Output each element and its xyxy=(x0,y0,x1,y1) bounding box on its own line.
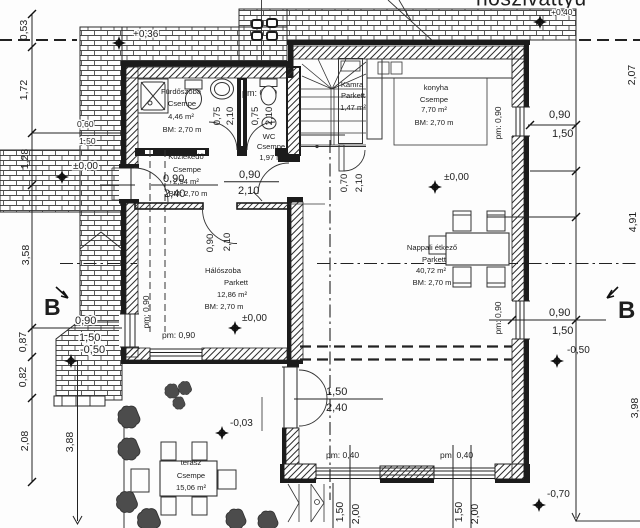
stair winder fan xyxy=(300,59,366,89)
french door leaf arcs xyxy=(299,370,327,426)
rotated door dims xyxy=(205,107,365,253)
right edge labels rotated xyxy=(626,65,640,419)
bathroom door arc xyxy=(209,122,237,150)
svg-text:±0,00: ±0,00 xyxy=(444,172,469,183)
shower tray xyxy=(138,79,168,113)
dining chairs xyxy=(429,211,505,287)
room label terrace xyxy=(176,458,206,492)
svg-text:1,28: 1,28 xyxy=(19,149,31,170)
stair bottom edge xyxy=(300,135,366,147)
living west wall below door xyxy=(282,428,286,464)
step connector wall xyxy=(288,40,294,78)
living room east window xyxy=(511,301,531,339)
svg-text:0,90: 0,90 xyxy=(549,109,570,121)
kitchen window dim 0,90/1,50 xyxy=(528,124,576,126)
svg-text:Csempe: Csempe xyxy=(420,95,448,104)
west window of bedroom xyxy=(119,314,139,347)
svg-text:Parkett: Parkett xyxy=(422,255,447,264)
terrace french door frame xyxy=(282,367,299,428)
terrace edge witness line xyxy=(261,397,263,431)
hall south wall segment 2 xyxy=(237,203,289,209)
svg-text:terasz: terasz xyxy=(181,458,202,467)
top wall hatch (bath/wc section) xyxy=(122,67,287,78)
kitchen appliances xyxy=(378,62,389,74)
left chain labels rotated xyxy=(17,20,76,453)
svg-text:Parkett: Parkett xyxy=(224,278,249,287)
brick cladding above bathroom xyxy=(122,27,287,61)
wc east wall xyxy=(287,67,300,155)
svg-text:pm: 0,90: pm: 0,90 xyxy=(162,330,195,340)
svg-text:2,10: 2,10 xyxy=(225,107,236,126)
wc partition bottom bar xyxy=(237,148,247,156)
svg-text:B: B xyxy=(618,297,635,324)
svg-text:Hálószoba: Hálószoba xyxy=(205,266,242,275)
bedroom east wall hatch xyxy=(291,202,303,360)
svg-text:4,46 m²: 4,46 m² xyxy=(168,112,194,121)
chain ticks xyxy=(28,10,36,18)
wc door arc xyxy=(247,122,275,150)
section arrow right xyxy=(607,287,618,298)
svg-text:pm: 0,40: pm: 0,40 xyxy=(326,450,359,460)
room label hall xyxy=(168,152,207,198)
terrace chairs xyxy=(131,442,236,515)
svg-text:pm: 0,90: pm: 0,90 xyxy=(493,301,503,334)
hall dashed canopy lines xyxy=(150,150,165,332)
svg-text:2,00: 2,00 xyxy=(350,504,362,525)
left small dims xyxy=(77,119,96,146)
chimney flues xyxy=(252,19,277,40)
svg-text:1,50: 1,50 xyxy=(79,136,96,146)
svg-text:0,75: 0,75 xyxy=(250,107,261,126)
room label living xyxy=(407,243,457,287)
bottom wall window sill lines xyxy=(316,468,495,479)
right dim line xyxy=(572,40,580,521)
left wall hatch xyxy=(126,67,138,357)
hall east door arc xyxy=(258,163,289,194)
svg-text:1,72: 1,72 xyxy=(18,80,30,101)
bathroom toilet xyxy=(185,80,202,109)
svg-text:1,50: 1,50 xyxy=(453,502,465,523)
kitchen floor outline xyxy=(394,78,487,145)
heat-pump leader lines xyxy=(388,0,434,42)
hall south wall segment 1 xyxy=(135,203,203,209)
dashed boundary top left xyxy=(0,39,77,41)
svg-text:0,60: 0,60 xyxy=(77,119,94,129)
terrace door dim 1,50/2,40 xyxy=(294,398,383,400)
kitchen left counter xyxy=(367,59,382,139)
svg-text:±0,00: ±0,00 xyxy=(73,161,98,172)
svg-text:3,98: 3,98 xyxy=(629,398,640,419)
brick band left horizontal xyxy=(0,150,122,212)
stair handrail xyxy=(331,89,334,145)
svg-text:4,91: 4,91 xyxy=(627,212,639,233)
svg-text:Kamra: Kamra xyxy=(341,80,364,89)
kitchen top counter xyxy=(367,59,512,78)
pm labels xyxy=(162,330,473,460)
bottom right boundary line xyxy=(576,520,640,522)
bath-wc partition wall xyxy=(237,78,247,148)
wall connector xyxy=(287,364,299,367)
svg-text:-0,03: -0,03 xyxy=(230,418,253,429)
brick column below with gable xyxy=(80,212,122,322)
svg-text:2,00: 2,00 xyxy=(469,504,481,525)
secondary left dim line 3,88 xyxy=(73,360,82,524)
svg-text:BM: 2,70 m: BM: 2,70 m xyxy=(415,118,454,127)
svg-text:-0,50: -0,50 xyxy=(80,344,105,356)
trees along terrace edge xyxy=(118,406,140,428)
bedroom door swing arc xyxy=(203,209,238,244)
svg-text:1,50: 1,50 xyxy=(334,502,346,523)
svg-text:2,08: 2,08 xyxy=(19,431,31,452)
entry door swing arc xyxy=(134,168,168,202)
right wall dark edge xyxy=(524,40,529,482)
svg-text:12,86 m²: 12,86 m² xyxy=(217,290,247,299)
svg-text:BM: 2,70 m: BM: 2,70 m xyxy=(413,278,452,287)
svg-text:1,50: 1,50 xyxy=(79,332,100,344)
svg-text:3,58: 3,58 xyxy=(20,245,32,266)
svg-text:1,47 m²: 1,47 m² xyxy=(340,103,366,112)
left dimension chain xyxy=(32,14,135,482)
svg-text:pm: 0,90: pm: 0,90 xyxy=(493,106,503,139)
bathroom sink xyxy=(211,79,234,99)
svg-text:1,50: 1,50 xyxy=(552,325,573,337)
elevation markers xyxy=(112,36,126,50)
bedroom south window xyxy=(150,349,202,360)
svg-text:0,53: 0,53 xyxy=(18,20,30,41)
svg-text:Csempe: Csempe xyxy=(177,471,205,480)
entry steps xyxy=(54,396,105,406)
svg-text:pm: 0,90: pm: 0,90 xyxy=(141,295,151,328)
svg-text:Közlekedő: Közlekedő xyxy=(168,152,203,161)
pantry closet under stairs xyxy=(339,59,363,144)
potted plants on terrace xyxy=(165,384,179,398)
bushes at bottom xyxy=(226,509,246,528)
stair treads xyxy=(300,59,366,145)
entry door opening xyxy=(119,167,139,201)
living window dim 0,90/1,50 xyxy=(489,319,606,321)
bedroom door dim fraction line xyxy=(224,181,279,183)
room label bedroom xyxy=(205,266,249,311)
brick cladding above kitchen + heat-pump pad xyxy=(287,9,576,40)
svg-text:0,90: 0,90 xyxy=(75,315,96,327)
svg-text:40,72 m²: 40,72 m² xyxy=(416,266,446,275)
pantry door leaf xyxy=(339,145,344,171)
bedroom door leader curve xyxy=(253,192,262,201)
svg-text:-0,70: -0,70 xyxy=(547,489,570,500)
svg-text:±0,00: ±0,00 xyxy=(242,313,267,324)
svg-text:BM: 2,70 m: BM: 2,70 m xyxy=(205,302,244,311)
gable triangle mark xyxy=(80,232,122,249)
dim labels horizontal xyxy=(75,109,573,414)
svg-text:3,88: 3,88 xyxy=(64,432,76,453)
svg-text:WC: WC xyxy=(263,132,276,141)
svg-text:konyha: konyha xyxy=(424,83,449,92)
bottom dim labels rotated xyxy=(334,502,481,525)
bathroom south wall bar xyxy=(135,148,209,156)
svg-text:0,87: 0,87 xyxy=(17,332,29,353)
svg-text:1,50: 1,50 xyxy=(552,128,573,140)
svg-text:2,40: 2,40 xyxy=(326,402,347,414)
brick stair block bottom-left xyxy=(56,322,122,400)
top wall hatch (kitchen section) xyxy=(290,46,524,59)
svg-text:2,10: 2,10 xyxy=(354,174,365,193)
svg-text:2,40: 2,40 xyxy=(164,188,185,200)
BRICKS xyxy=(0,9,576,406)
heavy dashed lines across living room xyxy=(300,347,512,360)
svg-text:Csempe: Csempe xyxy=(257,142,285,151)
hall door dim extension xyxy=(289,203,325,205)
svg-text:0,90: 0,90 xyxy=(163,173,184,185)
top wall dark edge (bath/wc section) xyxy=(121,61,293,67)
wc toilet xyxy=(260,79,277,105)
left wall dark edge xyxy=(121,61,126,364)
elevation labels xyxy=(73,7,590,500)
svg-text:2,10: 2,10 xyxy=(264,107,275,126)
bedroom south wall dark line xyxy=(122,360,303,364)
svg-text:2,10: 2,10 xyxy=(222,233,233,252)
bedroom east wall dark edge xyxy=(287,197,291,364)
svg-text:Fürdőszoba: Fürdőszoba xyxy=(161,87,202,96)
wc corner basin xyxy=(262,117,276,129)
entry jamb blocks xyxy=(119,164,139,169)
svg-text:0,90: 0,90 xyxy=(549,307,570,319)
svg-text:15,06 m²: 15,06 m² xyxy=(176,483,206,492)
section line B-B xyxy=(60,263,638,265)
wc south wall bar xyxy=(275,148,287,156)
room label kamra xyxy=(340,80,366,112)
svg-text:-0,50: -0,50 xyxy=(567,345,590,356)
svg-text:1,50: 1,50 xyxy=(326,386,347,398)
svg-text:Parkett: Parkett xyxy=(341,91,366,100)
entry threshold outside xyxy=(112,168,120,200)
roof projection dash-dot vertical xyxy=(329,140,331,500)
pantry door arc xyxy=(344,150,365,171)
svg-text:0,82: 0,82 xyxy=(17,367,29,388)
svg-text:0,90: 0,90 xyxy=(205,234,216,253)
bottom wall hatched pier xyxy=(380,466,434,479)
terrace table xyxy=(160,461,217,496)
hall door dim fraction line xyxy=(151,184,218,186)
room label kitchen xyxy=(415,83,454,127)
bedroom south wall corner hatch xyxy=(126,348,150,360)
bottom wall right corner block xyxy=(495,464,524,479)
room label bathroom xyxy=(161,87,202,134)
svg-text:Csempe: Csempe xyxy=(168,99,196,108)
svg-text:2,07: 2,07 xyxy=(626,65,638,86)
svg-text:B: B xyxy=(44,294,61,320)
svg-text:7,70 m²: 7,70 m² xyxy=(421,105,447,114)
svg-text:+0,36: +0,36 xyxy=(133,29,159,40)
svg-text:0,75: 0,75 xyxy=(212,107,223,126)
svg-text:Nappali étkező: Nappali étkező xyxy=(407,243,457,252)
svg-text:pm: 0,40: pm: 0,40 xyxy=(440,450,473,460)
chimney leader line xyxy=(261,0,263,64)
room label wc xyxy=(257,132,285,162)
bedroom east wall top cap xyxy=(287,197,303,202)
svg-text:+0,40: +0,40 xyxy=(551,7,573,17)
svg-text:0,90: 0,90 xyxy=(239,169,260,181)
bedroom south wall hatch xyxy=(202,348,287,360)
dining table xyxy=(446,233,509,265)
svg-text:BM: 2,70 m: BM: 2,70 m xyxy=(163,125,202,134)
bottom wall left corner block xyxy=(284,464,316,479)
wc east wall foot xyxy=(278,154,300,162)
bottom dim verticals xyxy=(333,445,471,528)
dashed boundary top right xyxy=(579,39,640,41)
window opening-direction triangles below bottom wall xyxy=(288,484,324,522)
kitchen window xyxy=(511,107,531,136)
svg-text:1,97 m: 1,97 m xyxy=(259,153,282,162)
west window dim 0,90/1,50 xyxy=(32,327,122,329)
svg-text:2,10: 2,10 xyxy=(238,185,259,197)
right wall hatch xyxy=(512,46,524,479)
section arrow left xyxy=(56,287,68,298)
right extension lines xyxy=(487,125,576,217)
brick pier left vertical (neighbour masonry) xyxy=(80,27,122,212)
svg-text:0,70: 0,70 xyxy=(339,174,350,193)
chimney brick block xyxy=(239,9,287,61)
top wall dark edge (kitchen section) xyxy=(287,40,530,45)
terrace west edge line xyxy=(123,406,125,528)
